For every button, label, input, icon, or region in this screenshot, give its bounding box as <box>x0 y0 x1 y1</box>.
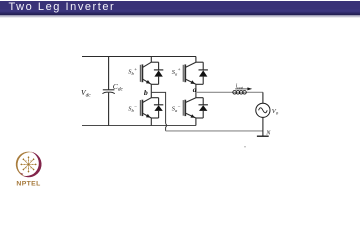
wire: Sa+ bottom bridge <box>196 83 203 85</box>
wire: Sa- bottom bridge <box>196 117 203 119</box>
AC source Vo circle <box>256 103 270 117</box>
diode DSa+ anode lead <box>202 62 204 70</box>
wire: Sa- top bridge <box>196 97 203 99</box>
title bar shadow <box>0 15 360 18</box>
wire: positive DC rail <box>82 56 196 58</box>
diode DSb- anode lead <box>158 98 160 105</box>
wire: Sa+ emitter drop <box>195 84 197 92</box>
wire: Sb- collector drop <box>150 92 152 97</box>
svg-text:NPTEL: NPTEL <box>16 181 40 188</box>
svg-text:Sb−: Sb− <box>128 105 137 113</box>
svg-text:Vo: Vo <box>272 108 279 116</box>
wire: Sb- top bridge <box>151 97 158 99</box>
arrow: output current direction <box>235 88 249 90</box>
wire: Sb+ emitter drop <box>150 84 152 92</box>
diode DSb- triangle <box>154 105 162 111</box>
transistor Sb- IGBT gate bar <box>139 100 141 116</box>
wire: hop over negative rail <box>166 124 167 131</box>
svg-text:Sa+: Sa+ <box>172 68 181 76</box>
NPTEL logo maroon tail <box>17 170 23 175</box>
transistor Sa+ IGBT gate bar <box>182 65 184 82</box>
diode DSb- cathode bar <box>154 104 163 106</box>
transistor Sb- emitter lead with arrow <box>143 113 152 118</box>
diode DSb+ anode-side lead <box>158 77 160 85</box>
NPTEL logo center diamond <box>28 163 30 165</box>
wire: negative DC rail <box>82 125 196 127</box>
diode DSb+ cathode bar <box>154 69 163 71</box>
transistor Sa+ IGBT body bar <box>184 64 186 82</box>
capacitor Cdc top plate <box>103 89 115 91</box>
wire: node b to return drop <box>151 92 165 123</box>
NPTEL logo starburst rays <box>21 157 35 171</box>
diode DSa- cathode bar <box>199 104 208 106</box>
transistor Sb+ collector lead <box>143 62 152 67</box>
wire: node a output line <box>196 91 263 93</box>
NPTEL logo maroon crescent <box>22 152 42 178</box>
diode DSb+ triangle <box>154 70 162 76</box>
NPTEL logo mid-ray dots <box>24 160 33 169</box>
diode DSb+ anode lead <box>158 62 160 70</box>
stray dot <box>244 146 245 147</box>
wire: Sa- emitter drop <box>195 118 197 126</box>
transistor Sb+ emitter lead with arrow <box>143 79 152 84</box>
N terminal bar <box>257 135 269 137</box>
transistor Sb- collector lead <box>143 98 152 103</box>
wire: DC-link capacitor branch lower <box>108 93 110 126</box>
transistor Sb+ IGBT body bar <box>141 64 143 82</box>
wire: Sb+ top bridge <box>151 61 158 63</box>
transistor Sa- IGBT gate bar <box>182 100 184 116</box>
svg-text:Sa−: Sa− <box>172 105 181 113</box>
svg-text:Vdc: Vdc <box>81 88 91 99</box>
transistor Sb+ IGBT gate bar <box>139 65 141 82</box>
wire: Sb- bottom bridge <box>151 117 158 119</box>
wire: Sa+ collector drop <box>195 57 197 63</box>
transistor Sa+ emitter lead with arrow <box>186 79 196 84</box>
transistor Sb- IGBT body bar <box>141 100 143 116</box>
diode DSa- anode lead <box>202 98 204 105</box>
transistor Sa+ collector lead <box>186 62 196 67</box>
diode DSa+ anode-side lead <box>202 77 204 85</box>
title bar <box>0 1 360 15</box>
svg-text:Sb+: Sb+ <box>128 68 137 76</box>
transistor Sa- emitter lead with arrow <box>186 113 196 118</box>
wire: AC source to N terminal <box>262 117 264 136</box>
transistor Sa- collector lead <box>186 98 196 103</box>
wire: Sb+ bottom bridge <box>151 83 158 85</box>
svg-text:Cdc: Cdc <box>113 82 124 93</box>
AC source sine wave <box>259 108 268 113</box>
wire: Sa+ top bridge <box>196 61 203 63</box>
diode DSa+ triangle <box>199 70 207 76</box>
transistor Sa- IGBT body bar <box>184 100 186 116</box>
diode DSa- anode-side lead <box>202 111 204 118</box>
diode DSa- triangle <box>199 105 207 111</box>
wire: Sb- emitter drop <box>150 118 152 126</box>
wire: load line down to AC source <box>262 92 264 103</box>
svg-text:b: b <box>144 88 148 97</box>
svg-text:N: N <box>265 130 271 137</box>
inductor Lout coil loops <box>233 91 247 95</box>
diode DSb- anode-side lead <box>158 111 160 118</box>
NPTEL logo ray diamonds <box>20 156 36 172</box>
wire: Sa- collector drop <box>195 92 197 97</box>
wire: DC-link capacitor branch upper <box>108 57 110 90</box>
wire: Sb+ collector drop <box>150 57 152 63</box>
capacitor Cdc bottom curved plate <box>102 92 114 93</box>
NPTEL logo gold crescent <box>16 152 34 177</box>
diode DSa+ cathode bar <box>199 69 208 71</box>
wire: load return line to N <box>166 130 263 132</box>
